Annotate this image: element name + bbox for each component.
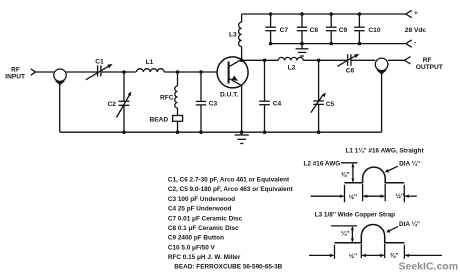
svg-text:28 Vdc: 28 Vdc: [405, 27, 427, 34]
wire L1 to transistor base: [164, 71, 228, 73]
capacitor C5 (variable): [311, 92, 335, 112]
L3 drawing loop profile: [335, 225, 405, 243]
wire J2 shield to bottom rail: [381, 74, 383, 133]
svg-text:L2 #16 AWG: L2 #16 AWG: [304, 160, 341, 167]
svg-text:C8 0.1 μF Ceramic Disc: C8 0.1 μF Ceramic Disc: [168, 225, 239, 232]
wire C5 branch down: [318, 60, 320, 100]
capacitor C4: [259, 101, 281, 108]
wire bead to bottom rail: [177, 121, 179, 132]
L2 drawing loop profile: [345, 167, 405, 183]
svg-text:C10 5.0 μF/50 V: C10 5.0 μF/50 V: [168, 244, 216, 251]
wire C4 to bottom rail: [264, 105, 266, 132]
svg-text:C5: C5: [326, 101, 335, 108]
svg-text:L3 1/8'' Wide Copper Strap: L3 1/8'' Wide Copper Strap: [315, 211, 395, 218]
svg-text:RFC: RFC: [160, 95, 174, 102]
svg-text:C4 25 pF Underwood: C4 25 pF Underwood: [168, 206, 232, 213]
svg-text:C2, C5 9.0-180 pF, Arco 463 o: C2, C5 9.0-180 pF, Arco 463 or Equivalen…: [168, 186, 294, 193]
svg-text:L1: L1: [146, 59, 154, 66]
node junction dot C3 top: [199, 70, 203, 74]
svg-text:RFC 0.15 μH J. W. Miller: RFC 0.15 μH J. W. Miller: [168, 254, 241, 261]
wire collector rail to C6: [242, 59, 279, 61]
svg-text:C4: C4: [273, 101, 282, 108]
inductor RFC: [160, 86, 178, 108]
node collector junction dot: [240, 59, 244, 63]
wire supply terminal arrowhead -: [406, 40, 416, 48]
ground on bypass rail: [296, 44, 309, 56]
svg-text:½'': ½'': [349, 252, 358, 260]
wire RFC to bead: [177, 108, 179, 116]
wire C3 to bottom rail: [200, 105, 202, 132]
wire input rail to C1: [36, 71, 98, 73]
svg-text:C3: C3: [209, 101, 218, 108]
capacitor C1 (variable): [86, 59, 113, 80]
svg-text:INPUT: INPUT: [5, 74, 25, 81]
transistor Q1 D.U.T.: [217, 57, 248, 99]
wire C4 branch down: [264, 60, 266, 100]
wire L3 note leader line: [331, 225, 357, 227]
node junction dot RFC top: [176, 70, 180, 74]
ground at emitter: [235, 132, 249, 143]
ferrite BEAD: [150, 116, 183, 124]
connector J1 RF input: [54, 69, 66, 85]
svg-text:C7: C7: [280, 27, 289, 34]
wire output terminal arrowhead: [405, 57, 411, 64]
svg-text:⅜'': ⅜'': [390, 253, 399, 260]
capacitor C9: [326, 12, 348, 45]
node bottom rail junction dots: [122, 130, 320, 134]
wire L3 top to supply rail: [241, 14, 243, 22]
capacitor C7: [265, 12, 288, 45]
svg-text:L1 1¼'' #16 AWG, Straight: L1 1¼'' #16 AWG, Straight: [346, 147, 425, 155]
capacitor C10: [354, 12, 381, 45]
wire collector to L3: [241, 47, 243, 61]
parts list text block: [168, 177, 294, 271]
inductor L1: [136, 59, 164, 72]
svg-text:L2: L2: [288, 65, 296, 72]
capacitor C6 (variable): [337, 54, 359, 75]
svg-text:C8: C8: [310, 27, 319, 34]
wire C2 to bottom rail: [123, 106, 125, 132]
svg-text:C10: C10: [368, 27, 380, 34]
wire supply terminal arrowhead +: [406, 10, 418, 18]
node RF OUTPUT label: [416, 57, 443, 71]
wire J1 shield down: [59, 85, 61, 133]
svg-text:½'': ½'': [349, 193, 358, 201]
L3 DIA label and leader: [386, 220, 420, 233]
svg-text:C2: C2: [108, 101, 117, 108]
wire +28V supply rail: [242, 13, 406, 15]
L2 drawing height dimension: [341, 163, 354, 183]
wire C5 to bottom rail: [318, 105, 320, 132]
svg-text:C9 2400 pF Button: C9 2400 pF Button: [168, 235, 224, 242]
svg-text:D.U.T.: D.U.T.: [220, 92, 238, 99]
wire C6 to output connector: [351, 59, 375, 61]
node RF INPUT label: [5, 67, 25, 81]
svg-text:C1: C1: [95, 59, 104, 66]
capacitor C8: [297, 12, 319, 45]
connector J2 RF output: [375, 58, 388, 74]
svg-text:¼'': ¼'': [341, 229, 350, 237]
svg-text:DIA ¼'': DIA ¼'': [399, 159, 420, 167]
svg-text:BEAD: FERROXCUBE 56-590-65-3B: BEAD: FERROXCUBE 56-590-65-3B: [174, 263, 282, 270]
svg-text:½'': ½'': [396, 192, 405, 200]
wire C2 branch down: [123, 72, 125, 101]
svg-text:C1, C6 2.7-30 pF, Arco 461 or: C1, C6 2.7-30 pF, Arco 461 or Equivalent: [168, 177, 290, 184]
capacitor C2 (variable): [108, 92, 132, 118]
svg-text:RF: RF: [11, 67, 20, 74]
svg-text:C6: C6: [346, 67, 355, 74]
wire C1 to L1: [101, 71, 136, 73]
node junction dot C2 top: [122, 70, 126, 74]
svg-text:DIA ¼'': DIA ¼'': [399, 220, 420, 228]
wire bottom ground rail: [60, 131, 382, 133]
svg-text:-: -: [414, 40, 416, 47]
L3 drawing height dimension: [341, 226, 354, 243]
L2 drawing width dimensions: [311, 184, 417, 202]
svg-text:+: +: [414, 10, 418, 17]
svg-text:L3: L3: [229, 32, 237, 39]
wire L2 note leader line: [341, 162, 358, 164]
wire bypass rail: [271, 43, 406, 45]
svg-text:C3 100 pF Underwood: C3 100 pF Underwood: [168, 196, 235, 203]
inductor L2: [278, 57, 303, 71]
inductor L3: [229, 22, 242, 46]
capacitor C3: [196, 101, 218, 108]
svg-text:⅜'': ⅜'': [341, 172, 350, 179]
wire RFC branch down: [177, 72, 179, 86]
svg-text:BEAD: BEAD: [150, 117, 169, 124]
svg-text:C7 0.01 μF Ceramic Disc: C7 0.01 μF Ceramic Disc: [168, 215, 243, 222]
wire emitter down: [241, 86, 243, 133]
node junction dot C5 top: [317, 59, 321, 63]
wire L2 to C6: [303, 59, 347, 61]
wire output to terminal: [388, 59, 405, 61]
L2 DIA label and leader: [385, 159, 421, 172]
svg-text:RF: RF: [423, 57, 432, 64]
L3 drawing width dimensions: [309, 244, 442, 260]
node junction dot C4 top: [263, 59, 267, 63]
svg-text:OUTPUT: OUTPUT: [416, 64, 443, 71]
svg-text:C9: C9: [339, 27, 348, 34]
wire input arrowhead: [31, 69, 36, 75]
wire C3 branch down: [200, 72, 202, 101]
svg-text:SeekIC.com: SeekIC.com: [399, 260, 459, 272]
